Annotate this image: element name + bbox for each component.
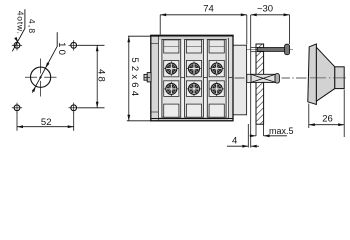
shaft square with X — [247, 74, 280, 84]
dim 48 right — [79, 45, 105, 108]
body outline — [151, 35, 233, 121]
hex mounting screw left — [144, 74, 147, 80]
arrow at hole — [14, 37, 19, 43]
screw C2R1 — [187, 61, 201, 75]
center line horizontal — [25, 76, 57, 78]
column 1 — [162, 40, 181, 118]
panel (hatched) — [256, 44, 264, 124]
svg-text:4,8: 4,8 — [27, 19, 37, 34]
dim 52 bottom — [17, 112, 74, 131]
mounting flange rear — [233, 45, 247, 115]
dim 52x64 left of body — [127, 36, 160, 121]
left wall — [151, 35, 159, 121]
hole bottom-right — [69, 103, 79, 113]
svg-text:52x64: 52x64 — [129, 57, 140, 99]
svg-text:74: 74 — [203, 4, 214, 15]
svg-text:~30: ~30 — [257, 4, 273, 15]
dim 4 bottom — [227, 145, 259, 147]
arrow on circle top-right — [44, 62, 49, 69]
svg-text:4: 4 — [232, 135, 237, 146]
dim 74 top — [160, 15, 247, 45]
extension line vertical (panel plane) — [250, 15, 252, 148]
center line vertical — [40, 59, 42, 97]
svg-text:10: 10 — [56, 42, 67, 57]
svg-text:4otw.: 4otw. — [15, 11, 25, 35]
dim 26 under knob — [309, 90, 344, 138]
dim max.5 — [250, 124, 288, 136]
screw C3R1 — [210, 61, 224, 75]
svg-text:26: 26 — [322, 113, 333, 124]
bottom band — [151, 117, 233, 121]
screw C1R1 — [164, 61, 178, 75]
hole top-left — [12, 40, 22, 50]
shaft hole circle — [30, 67, 50, 87]
leader 4,8 / 4otw. — [12, 9, 25, 51]
arrow on circle bottom-left — [32, 85, 37, 92]
center line dashes (axis) — [144, 77, 307, 79]
hole bottom-left — [12, 103, 22, 113]
svg-text:max.5: max.5 — [269, 126, 294, 136]
extension line body rear bottom — [247, 124, 249, 148]
svg-text:52: 52 — [41, 117, 52, 128]
screw C2R2 — [187, 82, 201, 96]
column 2 — [185, 40, 204, 118]
body base — [151, 35, 233, 121]
dim ~30 top — [251, 15, 290, 44]
mounting screw through panel — [246, 44, 293, 55]
screw C1R2 — [164, 82, 178, 96]
svg-text:48: 48 — [96, 69, 107, 84]
leader dia 10: diagonal + vertical — [32, 32, 57, 92]
top band — [151, 35, 233, 40]
column 3 — [207, 40, 226, 118]
hole top-right — [69, 40, 79, 50]
screw C3R2 — [210, 82, 224, 96]
